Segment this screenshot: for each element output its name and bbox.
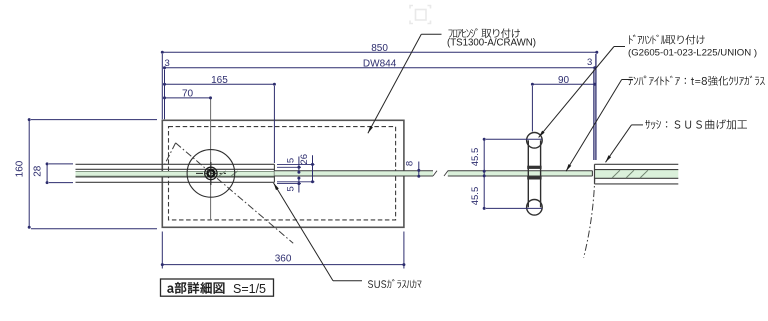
svg-text:90: 90 <box>558 75 570 86</box>
svg-text:26: 26 <box>299 154 310 165</box>
svg-text:45.5: 45.5 <box>470 148 481 167</box>
svg-text:850: 850 <box>371 43 388 54</box>
svg-text:S=1/5: S=1/5 <box>233 282 266 296</box>
svg-text:5: 5 <box>286 158 297 163</box>
svg-text:5: 5 <box>286 186 297 191</box>
svg-text:8: 8 <box>405 161 416 166</box>
svg-text:70: 70 <box>182 89 194 100</box>
svg-text:DW844: DW844 <box>363 59 397 70</box>
svg-text:28: 28 <box>32 165 43 177</box>
svg-text:360: 360 <box>275 254 292 265</box>
svg-text:45.5: 45.5 <box>470 187 481 206</box>
svg-text:160: 160 <box>14 160 25 177</box>
svg-text:3: 3 <box>587 57 592 68</box>
svg-text:165: 165 <box>211 75 228 86</box>
svg-text:(TS1300-A/CRAWN): (TS1300-A/CRAWN) <box>447 37 536 48</box>
svg-text:(G2605-01-023-L225/UNION ): (G2605-01-023-L225/UNION ) <box>628 47 757 58</box>
svg-text:3: 3 <box>165 58 170 69</box>
